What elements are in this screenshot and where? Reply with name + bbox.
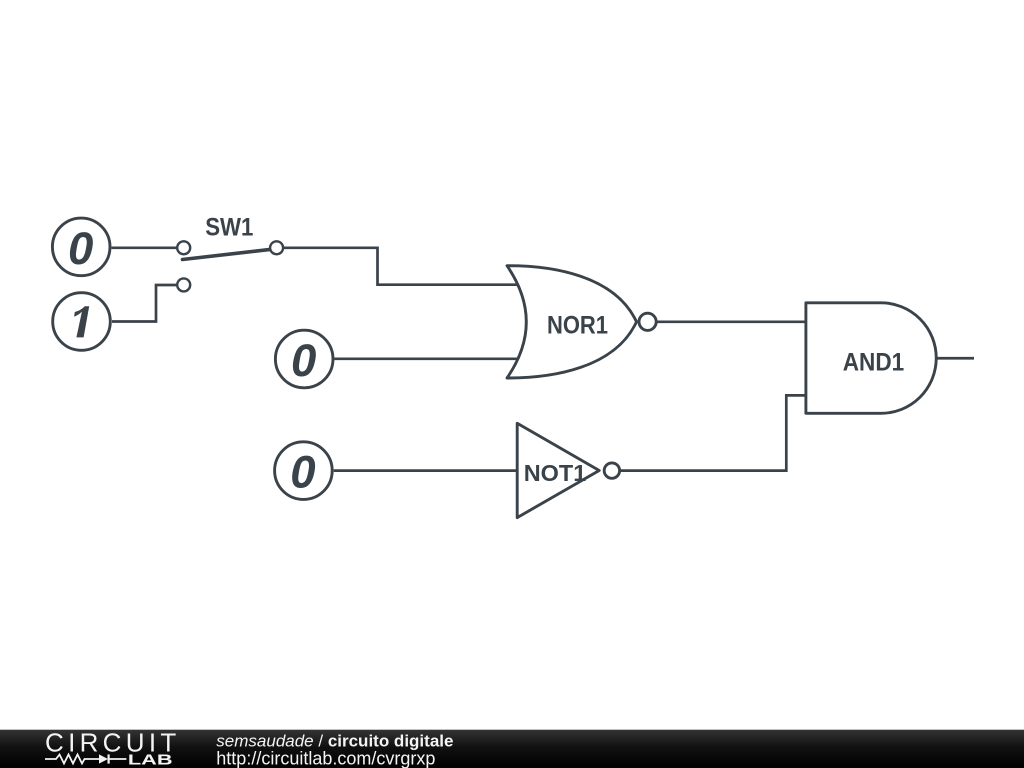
- SW1 throw contact (input B side): [177, 278, 190, 291]
- switch SW1: [177, 241, 283, 291]
- logic input B (value 1): [53, 293, 111, 351]
- footer url: [216, 749, 435, 768]
- CircuitLab logo diode symbol: [99, 754, 126, 763]
- logic input A (value 0): [52, 218, 110, 276]
- svg-text:AND1: AND1: [843, 348, 905, 376]
- footer bar: [0, 730, 1024, 768]
- wire input A to SW1 left contact: [112, 246, 178, 249]
- NOR gate NOR1 body: [507, 266, 656, 378]
- wire input C to NOR1 input B: [334, 357, 521, 360]
- svg-text:SW1: SW1: [205, 213, 253, 241]
- wire AND1 output: [936, 357, 974, 360]
- svg-text:NOR1: NOR1: [547, 311, 608, 339]
- AND gate AND1 body: [806, 303, 936, 414]
- label AND1: [843, 348, 905, 376]
- SW1 arm: [183, 249, 273, 259]
- SW1 throw contact (input A side): [177, 241, 190, 254]
- logic input D (value 0): [275, 442, 333, 500]
- label NOR1: [547, 311, 608, 339]
- logic input C (value 0): [275, 330, 333, 388]
- svg-text:LAB: LAB: [128, 752, 173, 768]
- NOT gate NOT1 body: [517, 423, 619, 517]
- wire NOT1 output to AND1 input B: [621, 395, 806, 470]
- label SW1: [205, 213, 253, 241]
- wire NOR1 output to AND1 input A: [657, 320, 806, 323]
- wire input D to NOT1 input: [334, 469, 517, 472]
- label NOT1: [524, 460, 587, 486]
- svg-text:0: 0: [291, 335, 316, 386]
- SW1 pole contact (output side): [270, 241, 283, 254]
- CircuitLab logo wordmark LAB: [128, 752, 173, 768]
- svg-text:NOT1: NOT1: [524, 460, 587, 486]
- footer credit text: [216, 732, 453, 751]
- svg-text:0: 0: [290, 447, 315, 498]
- svg-text:http://circuitlab.com/cvrgrxp: http://circuitlab.com/cvrgrxp: [216, 749, 435, 768]
- CircuitLab logo wordmark CIRCUIT: [45, 727, 181, 757]
- wire SW1 pole to NOR1 input A: [283, 248, 521, 285]
- svg-text:0: 0: [68, 223, 93, 274]
- CircuitLab logo resistor symbol: [45, 755, 99, 764]
- wire input B to SW1 lower contact: [112, 285, 177, 322]
- NOT1 output inversion bubble: [604, 463, 619, 478]
- svg-text:semsaudade / circuito digitale: semsaudade / circuito digitale: [216, 732, 453, 751]
- NOR1 output inversion bubble: [639, 313, 656, 330]
